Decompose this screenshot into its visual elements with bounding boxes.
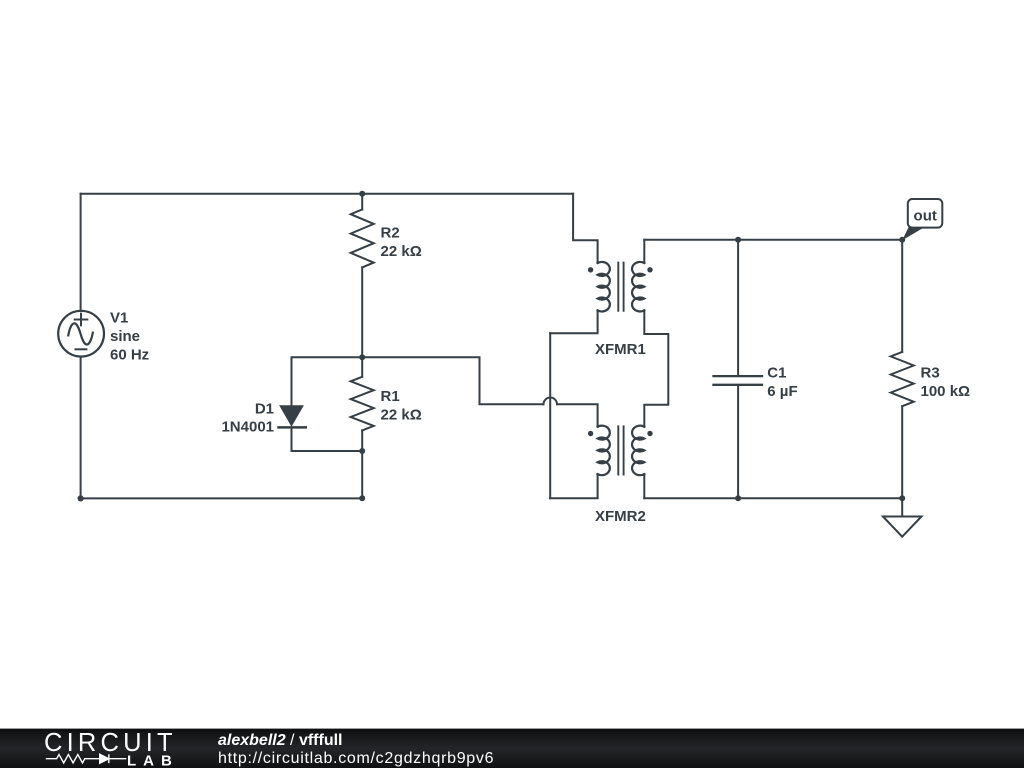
xfmr1 left winding bbox=[598, 262, 610, 312]
wire top rail bbox=[81, 193, 573, 195]
xfmr2 core bbox=[618, 426, 623, 474]
xfmr1 right winding bbox=[632, 262, 644, 312]
node R1 bottom bbox=[359, 448, 365, 454]
svg-text:http://circuitlab.com/c2gdzhqr: http://circuitlab.com/c2gdzhqrb9pv6 bbox=[218, 750, 494, 767]
node C1 top bbox=[735, 237, 741, 243]
svg-text:22 kΩ: 22 kΩ bbox=[381, 243, 422, 260]
wire hop bbox=[544, 398, 558, 405]
xfmr1 core bbox=[618, 263, 623, 311]
transformer XFMR2 bbox=[588, 426, 653, 476]
node ground bbox=[899, 495, 905, 501]
wire mid node to xfmr primary bbox=[362, 357, 543, 404]
resistor R1 bbox=[351, 357, 374, 451]
svg-text:out: out bbox=[914, 208, 937, 225]
wire left rail upper bbox=[80, 194, 82, 311]
footer bar bbox=[0, 729, 1024, 768]
svg-text:alexbell2 / vfffull: alexbell2 / vfffull bbox=[218, 732, 343, 749]
svg-text:sine: sine bbox=[110, 328, 140, 345]
node flag out bbox=[902, 199, 942, 240]
svg-text:6 µF: 6 µF bbox=[767, 383, 797, 400]
voltage source V1 bbox=[58, 311, 104, 357]
wire hop to xfmr2 left top bbox=[557, 404, 598, 426]
node out bbox=[899, 237, 905, 243]
xfmr2 left winding bbox=[598, 426, 610, 476]
wire top right rail bbox=[644, 239, 902, 241]
wire xfmr1 left bottom horiz bbox=[550, 310, 597, 333]
xfmr1 right dot bbox=[647, 267, 652, 272]
svg-text:22 kΩ: 22 kΩ bbox=[381, 406, 422, 423]
resistor R2 bbox=[351, 194, 374, 358]
capacitor C1 bbox=[714, 240, 763, 499]
wire xfmr1 right top bbox=[643, 240, 645, 263]
svg-text:LAB: LAB bbox=[127, 752, 179, 768]
wire D1 branch bottom bbox=[292, 427, 363, 451]
svg-text:60 Hz: 60 Hz bbox=[110, 346, 149, 363]
svg-text:1N4001: 1N4001 bbox=[221, 419, 274, 436]
xfmr2 left dot bbox=[588, 431, 593, 436]
svg-text:C1: C1 bbox=[767, 365, 786, 382]
wire xfmr1 left top bbox=[573, 194, 598, 263]
wire xfmr1 left bottom vertical bbox=[549, 333, 551, 498]
node mid divider bbox=[359, 354, 365, 360]
diode D1 bbox=[279, 405, 306, 427]
logo resistor-diode glyph bbox=[46, 754, 127, 763]
node top R2 bbox=[359, 191, 365, 197]
ground bbox=[883, 498, 922, 536]
node C1 bottom bbox=[735, 495, 741, 501]
xfmr2 right dot bbox=[647, 431, 652, 436]
wire xfmr2 left bottom loop bbox=[550, 474, 597, 498]
node bottom left bus bbox=[359, 495, 365, 501]
svg-text:D1: D1 bbox=[255, 401, 274, 418]
svg-text:R2: R2 bbox=[381, 225, 400, 242]
xfmr2 right winding bbox=[632, 426, 644, 476]
wire R1 bottom to bus bbox=[361, 451, 363, 498]
transformer XFMR1 bbox=[588, 262, 653, 312]
xfmr1 left dot bbox=[588, 267, 593, 272]
resistor R3 bbox=[891, 240, 914, 499]
svg-text:100 kΩ: 100 kΩ bbox=[921, 383, 971, 400]
wire bottom left bus bbox=[81, 497, 363, 499]
svg-text:V1: V1 bbox=[110, 310, 128, 327]
wire bottom right bus bbox=[644, 497, 902, 499]
wire D1 branch top bbox=[292, 357, 363, 405]
wire xfmr1 right bottom bbox=[644, 310, 668, 426]
svg-text:R3: R3 bbox=[921, 364, 940, 381]
wire xfmr2 right bottom bbox=[643, 474, 645, 498]
svg-text:XFMR2: XFMR2 bbox=[595, 508, 646, 525]
wire left rail lower bbox=[80, 357, 82, 499]
svg-text:XFMR1: XFMR1 bbox=[595, 341, 646, 358]
node V1 bottom corner bbox=[78, 495, 84, 501]
svg-text:R1: R1 bbox=[381, 388, 400, 405]
